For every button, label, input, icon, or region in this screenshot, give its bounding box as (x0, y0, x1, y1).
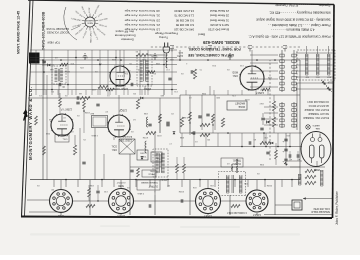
resistor R32 (183, 164, 186, 173)
wire (275, 159, 277, 165)
wire stub lower (185, 90, 187, 95)
wire switch to coils (250, 86, 278, 88)
wire RF tube down (251, 50, 253, 66)
oscillator coil T3 box (119, 139, 135, 154)
wire (262, 121, 264, 125)
wire drop to IF T1 (58, 84, 60, 98)
wire drop to IF (209, 86, 211, 95)
junction on B+ bus (65, 179, 67, 181)
wire stub to top bus (53, 180, 55, 188)
resistor R30 (83, 100, 86, 109)
wire to speaker with arrow (303, 197, 332, 199)
socket layout chassis arc (64, 7, 77, 40)
wire (88, 197, 90, 201)
socket layout spoke DIAL LAMP (92, 14, 93, 17)
resistor R39 (159, 114, 162, 123)
wire (74, 135, 76, 145)
resistor R22 between sockets (86, 204, 95, 207)
band switch wafer S1a (293, 50, 295, 92)
wire switch to border tick (296, 76, 333, 78)
junction ground bus (97, 59, 99, 61)
svg-text:ADJUST AT 600 KC: ADJUST AT 600 KC (308, 104, 329, 107)
wire plug to junction (165, 57, 167, 68)
capacitor C43 (59, 83, 61, 86)
label box 2 (142, 170, 156, 177)
wire socket I lead (256, 213, 258, 215)
wire vertical mid4 (189, 95, 191, 135)
bypass capacitor row C61 (289, 154, 291, 157)
wire vertical run mid (205, 133, 207, 147)
socket layout spoke ANT COIL (86, 14, 87, 17)
capacitor C51 (198, 116, 201, 118)
junction ground bus (256, 59, 258, 61)
svg-text:C 04WG-629 ONLY: C 04WG-629 ONLY (226, 211, 247, 213)
electrolytic capacitor C32 filter (284, 139, 287, 141)
oscillator coil winding (145, 141, 147, 153)
svg-text:3.3M: 3.3M (183, 116, 188, 118)
wire stub to top bus (291, 180, 293, 188)
wire (97, 194, 99, 201)
wire coil down (306, 46, 308, 54)
tube socket V2 12SK7 (bottom view) (196, 189, 221, 214)
svg-text:CHASSIS: CHASSIS (85, 19, 94, 22)
wire vertical run (147, 50, 149, 95)
svg-text:250M: 250M (267, 184, 272, 186)
socket layout spoke 35Z5 RECT (82, 19, 85, 22)
resistor R37 (212, 114, 215, 123)
wire (263, 133, 265, 143)
resistor R11 (136, 99, 139, 109)
tube socket V3 12SQ7 (bottom view) (109, 189, 134, 214)
capacitor C11 (96, 104, 99, 106)
svg-text:MOD.: MOD. (231, 71, 238, 74)
wire AVC bus (28, 97, 180, 99)
wire vertical run mid (229, 133, 231, 147)
wire switch to coils (250, 78, 278, 80)
resistor R19 filter (305, 175, 316, 178)
wire stub lower (97, 90, 99, 95)
wire (159, 123, 161, 133)
tone control box (137, 150, 148, 160)
svg-text:12SQ7: 12SQ7 (116, 214, 125, 218)
capacitor C16 (206, 114, 209, 116)
svg-text:COIL 450 OHM: COIL 450 OHM (314, 207, 330, 210)
junction R37 (212, 124, 213, 125)
switch contact (292, 119, 296, 122)
switch contact (280, 109, 284, 112)
osc coil cross (119, 139, 135, 154)
wire (299, 72, 301, 95)
wire stub lower (213, 90, 215, 95)
volume control box (151, 152, 162, 162)
wire conv tube down (119, 50, 121, 66)
rectifier tube V5 35Z5 (oval envelope) (301, 132, 331, 167)
resistor R12 (80, 96, 90, 99)
wire switch bank2 out (264, 118, 278, 120)
junction bus mid2 (191, 132, 193, 134)
wire speaker to socket (275, 204, 292, 206)
svg-text:25M: 25M (46, 132, 50, 134)
capacitor C41 (191, 70, 193, 73)
loop antenna dashed box (297, 50, 335, 80)
bypass capacitor row C60 (297, 154, 299, 157)
svg-text:B'CAST OSC. TRIMMER: B'CAST OSC. TRIMMER (303, 116, 329, 119)
black index tab (airplane silhouette) (23, 109, 28, 121)
svg-text:31 Meter Band: 31 Meter Band (210, 18, 229, 22)
resistor R38 (189, 112, 192, 121)
wire socket V2 to bus (207, 180, 209, 189)
junction on B+ bus (264, 179, 266, 181)
wire vertical mid (179, 95, 181, 133)
svg-text:SW ANT. TRIMMER: SW ANT. TRIMMER (308, 112, 329, 115)
wire stub to top bus (167, 180, 169, 188)
svg-text:FIELD: FIELD (148, 173, 155, 175)
resistor R40 (59, 98, 62, 107)
wire socket row to border (264, 214, 332, 216)
junction wire grid (123, 71, 125, 73)
wire stub lower (141, 90, 143, 95)
wire electrolytic chain (285, 133, 287, 165)
resistor R10 (146, 131, 156, 134)
junction on B+ bus (101, 179, 103, 181)
socket layout spoke 12SA7 CONV (89, 27, 91, 30)
output transformer core (232, 175, 234, 193)
svg-text:TRANSFORMER: TRANSFORMER (141, 181, 158, 184)
svg-text:540 KC DB 110: 540 KC DB 110 (174, 28, 194, 32)
wire right border to socket H (27, 199, 50, 201)
svg-text:SOCKET VOLTAGES: SOCKET VOLTAGES (46, 31, 69, 34)
svg-text:25 Microvolts Average: 25 Microvolts Average (124, 18, 160, 22)
wire (51, 64, 54, 66)
svg-text:Intermediate Frequency - -: Intermediate Frequency - - - - - - - - 4… (269, 11, 331, 15)
switch contact (280, 124, 284, 127)
wire vertical run (115, 50, 117, 95)
trimmer capacitor (248, 46, 252, 52)
wire socket V4 to bus (60, 180, 62, 190)
wire vertical osc (103, 154, 105, 180)
wire (297, 151, 299, 154)
black series box (29, 53, 40, 64)
wire switch to border tick (296, 64, 333, 66)
wire stub lower (71, 90, 73, 95)
junction bus mid2 (227, 132, 229, 134)
wire stub lower (45, 90, 47, 95)
power line choke L1 (166, 55, 168, 68)
wire stub to top bus (247, 180, 249, 188)
capacitor C12 (82, 162, 85, 164)
capacitor C48 (266, 152, 269, 154)
svg-text:DIAL: DIAL (314, 127, 320, 130)
switch contact (280, 65, 284, 68)
wire (189, 121, 191, 133)
wire socket V3 to V4 (73, 200, 109, 202)
wire vertical drop a (274, 180, 276, 215)
wire vertical run (139, 50, 141, 95)
resistor R28 (35, 116, 38, 125)
wire (88, 185, 90, 188)
junction on B+ bus (291, 179, 293, 181)
wire vertical mid5 (159, 98, 161, 133)
svg-text:12SA7 CONV: 12SA7 CONV (89, 31, 92, 43)
junction ground bus (42, 59, 44, 61)
wire right vertical feed (42, 60, 44, 180)
svg-text:MONT. WARD PAGE 12-45: MONT. WARD PAGE 12-45 (17, 11, 21, 54)
junction wire grid (115, 57, 117, 59)
wire horizontal run (30, 64, 177, 66)
svg-text:Band: Band (198, 33, 205, 37)
wire rectifier plate lead (316, 161, 318, 167)
wire vertical run mid (181, 133, 183, 147)
svg-text:04WG-629A: 04WG-629A (235, 158, 239, 173)
svg-text:456KC: 456KC (160, 178, 167, 180)
wire (183, 157, 185, 164)
resistor R6 (272, 101, 275, 111)
wire vertical drop d (154, 195, 156, 215)
wire switch to coils (250, 70, 278, 72)
wire stub to top bus (77, 180, 79, 188)
dashed gang link vertical (269, 60, 271, 160)
resistor R7 (200, 133, 210, 136)
wire osc coil to tube (113, 137, 115, 140)
resistor R25 (147, 71, 155, 74)
resistor R24 (106, 88, 114, 91)
svg-text:Speaker - - - - - - -: Speaker - - - - - - - - - - 8" P.M. Dyna… (275, 3, 331, 7)
wire B+ bus horizontal (30, 179, 300, 181)
wire (59, 107, 61, 115)
svg-text:12M: 12M (268, 76, 272, 78)
junction on B+ bus (135, 179, 137, 181)
crystal diode (267, 121, 270, 124)
wire vertical run mid (217, 133, 219, 147)
svg-text:12SK7: 12SK7 (256, 91, 264, 95)
speaker plug box (292, 200, 302, 210)
svg-text:MODEL 04WG-629: MODEL 04WG-629 (202, 40, 239, 45)
junction R30 (83, 110, 85, 112)
wire vertical run (123, 50, 125, 95)
svg-text:2 MEG: 2 MEG (137, 192, 144, 194)
svg-text:50B5: 50B5 (57, 214, 64, 218)
junction bus mid (253, 146, 255, 148)
ground symbol (83, 54, 88, 60)
junction bus mid (241, 146, 243, 148)
tube socket V1 12SA7 (bottom view) (246, 190, 268, 212)
capacitor C24 (96, 191, 99, 193)
svg-text:.0005: .0005 (244, 98, 250, 100)
junction on B+ bus (199, 179, 201, 181)
wire bus 4 (180, 132, 302, 134)
wire stub lower (163, 90, 165, 95)
junction wire grid (67, 84, 69, 86)
svg-text:USE F.M. CONNECTIONS, SEE: USE F.M. CONNECTIONS, SEE (188, 53, 234, 57)
svg-text:A.C.: A.C. (178, 51, 183, 55)
capacitor C50 (42, 61, 45, 63)
socket layout spoke B+ LEAD (95, 22, 98, 25)
page frame right border outer (22, 0, 31, 217)
svg-text:9.5 MC DB 80: 9.5 MC DB 80 (175, 18, 194, 22)
wire vertical run mid (253, 133, 255, 147)
wire vertical drop f (89, 180, 91, 215)
svg-text:& 1st A.F.: & 1st A.F. (122, 135, 132, 138)
wire stub to top bus (181, 180, 183, 188)
svg-text:ON 04WG-629 ONLY: ON 04WG-629 ONLY (307, 100, 329, 102)
band switch wafer S1b (281, 50, 283, 92)
wire stub lower (57, 90, 59, 95)
wire detector down (118, 95, 120, 115)
svg-text:TONE: TONE (140, 155, 147, 157)
wire switch to coils (250, 54, 278, 56)
trimmer capacitor (283, 46, 287, 52)
wire vertical drop b (229, 195, 231, 215)
wire socket V1 to V2 (221, 200, 246, 202)
wire stub lower (127, 90, 129, 95)
svg-text:CONT.: CONT. (154, 154, 161, 156)
wire filter bottom (290, 166, 325, 168)
socket layout spoke LOOP (89, 14, 91, 17)
page frame left border (333, 5, 335, 219)
svg-text:John F. Rider, Publisher: John F. Rider, Publisher (335, 190, 339, 225)
junction ground bus (207, 59, 209, 61)
coil L5 (146, 117, 148, 127)
wire trimmer 2 (321, 80, 327, 86)
wire socket V2 to V3 (134, 200, 196, 202)
pilot lamp 1 (306, 125, 310, 129)
wire vertical run (99, 50, 101, 95)
wire stub to top bus (281, 180, 283, 188)
svg-text:Power Output - - - - 3.2: Power Output - - - - 3.2 Watts Undistort… (268, 23, 331, 27)
wire socket G lead (120, 214, 122, 215)
capacitor C46 (260, 128, 263, 130)
svg-text:I.F.: I.F. (62, 85, 65, 87)
resistor R8 (200, 123, 210, 126)
tuning box (92, 116, 108, 128)
svg-text:LOOP: LOOP (327, 81, 334, 83)
wire (42, 98, 44, 135)
capacitor C14 (168, 78, 171, 80)
socket layout spoke OSC COIL (83, 17, 86, 19)
wire lower bus left (180, 94, 300, 96)
svg-text:500M: 500M (179, 190, 184, 192)
wire (289, 151, 291, 154)
wire second vertical feed (46, 75, 48, 180)
svg-text:1M: 1M (79, 92, 82, 94)
capacitor C9 (193, 131, 195, 134)
capacitor C15 (77, 96, 79, 99)
junction ground bus (60, 59, 62, 61)
svg-text:OUTPUT: OUTPUT (148, 185, 158, 187)
wire caps row top (286, 160, 302, 162)
wire (273, 95, 275, 101)
svg-text:25 Meter Band: 25 Meter Band (210, 14, 229, 18)
wire socket V3 to bus (120, 180, 122, 189)
junction ground bus (179, 59, 181, 61)
resistor R15 (193, 69, 196, 79)
resistor R36 line (136, 53, 148, 56)
diode arrow 2 (173, 132, 176, 135)
wire stub to top bus (264, 180, 266, 188)
resistor R5 (272, 117, 275, 127)
svg-text:LOOP: LOOP (89, 7, 91, 13)
svg-text:470M: 470M (143, 136, 148, 138)
wire stub lower (241, 90, 243, 95)
output transformer secondary winding (226, 175, 229, 193)
wire socket H lead (60, 213, 62, 215)
svg-text:10M: 10M (144, 112, 148, 114)
resistor R14 (260, 141, 270, 144)
svg-text:6.0 MC DB 85: 6.0 MC DB 85 (175, 23, 194, 27)
resistor R31 (275, 150, 278, 159)
svg-text:Power Consumption 87 Watts at: Power Consumption 87 Watts at 117 volts … (248, 35, 330, 39)
switch contact (280, 82, 284, 85)
svg-text:MONTGOMERY WARD & CO.: MONTGOMERY WARD & CO. (28, 86, 33, 160)
wire to tuning box (94, 128, 96, 180)
wire (275, 143, 277, 150)
wire vertical conv (79, 128, 81, 180)
resistor R27 (43, 146, 46, 155)
svg-text:12SA7: 12SA7 (253, 213, 261, 217)
capacitor C23 (149, 204, 151, 207)
diode arrow osc (141, 157, 144, 160)
resistor R26 (60, 63, 68, 66)
wire vertical run mid (265, 133, 267, 147)
switch contact (280, 119, 284, 122)
wire horizontal run (30, 49, 177, 51)
wire stub lower (227, 90, 229, 95)
electrolytic capacitor C30 filter (284, 159, 287, 161)
capacitor C44 (166, 124, 169, 126)
page frame bottom border (28, 0, 334, 5)
switch contact (292, 82, 296, 85)
wire vertical run (75, 50, 77, 95)
tube V6 12SK7 RF amplifier (239, 65, 265, 91)
wire coil down (328, 46, 330, 54)
resistor R18 filter (305, 181, 316, 184)
loop antenna coil L2 (327, 54, 330, 75)
junction wire grid (51, 89, 53, 91)
junction wire grid (171, 89, 173, 91)
tube V7 12SA7 converter (50, 113, 74, 137)
svg-text:OUTPUT: OUTPUT (116, 181, 126, 183)
svg-text:11.8 MC DB 75: 11.8 MC DB 75 (174, 14, 194, 18)
capacitor C45 (148, 124, 151, 126)
wire stub lower (109, 90, 111, 95)
svg-text:TOP VIEW: TOP VIEW (47, 41, 60, 45)
wire vertical drop c (189, 180, 191, 215)
rectifier diode arrow (284, 162, 288, 166)
svg-text:10M: 10M (90, 184, 94, 186)
switch contact (292, 60, 296, 63)
resistor R17 (221, 118, 224, 127)
capacitor C22 between sockets (181, 199, 183, 202)
wire (212, 123, 214, 133)
svg-text:50B5: 50B5 (118, 184, 124, 187)
wire vertical run (35, 50, 37, 95)
wire horizontal run (30, 89, 177, 91)
wire switch to coils (250, 62, 278, 64)
wire drop to IF T2 (144, 86, 146, 95)
resistor R16 (98, 85, 108, 88)
wire coil down (317, 46, 319, 54)
wire stub lower (267, 90, 269, 95)
filter choke winding 1 (320, 170, 323, 186)
svg-text:220M: 220M (65, 70, 70, 72)
wire (59, 93, 61, 98)
capacitor C13 (249, 141, 251, 144)
svg-text:20M: 20M (260, 163, 264, 165)
svg-text:B'CAST OSC. PADDER: B'CAST OSC. PADDER (304, 108, 329, 111)
wire (209, 125, 211, 133)
switch contact (292, 71, 296, 74)
wire switch bank2 out (264, 106, 278, 108)
